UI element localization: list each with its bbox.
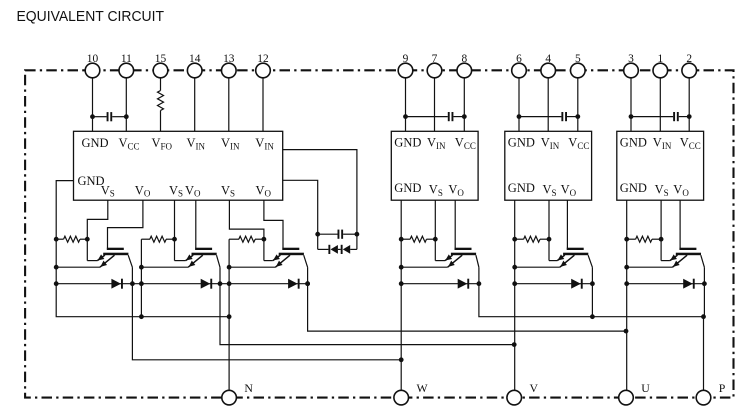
transistor Q3 body bar	[279, 253, 304, 256]
svg-text:V: V	[530, 381, 539, 395]
transistor Q4 body bar	[676, 253, 701, 256]
junction V routing / V column	[512, 342, 517, 347]
junction U4 column / emitter wire	[624, 265, 629, 270]
wire pin 7 to box U2	[434, 78, 436, 132]
pin 3	[624, 63, 639, 78]
svg-text:2: 2	[686, 53, 692, 65]
transistor Q2 collector	[476, 255, 479, 267]
wire pin 14 to box	[194, 78, 196, 132]
transistor Q3 emitter 1	[557, 255, 565, 261]
P-side control box U3	[505, 131, 592, 200]
wire VS1 to emitter of Q1	[87, 200, 108, 260]
wire pin 5 to box U3	[577, 78, 579, 132]
junction R / VS of U4	[659, 237, 664, 242]
wire VO1 to gate of Q1	[108, 200, 143, 248]
svg-text:P: P	[719, 381, 726, 395]
P column to P pin	[703, 317, 705, 391]
junction U2 column / diode row	[399, 281, 404, 286]
transistor Q3 emitter 1	[273, 255, 281, 261]
resistor R3	[229, 238, 239, 240]
pin 12	[256, 63, 271, 78]
junction VS1 / R1	[85, 237, 90, 242]
diode row wire left	[56, 283, 307, 285]
wire pin 3 to box U4	[630, 78, 632, 132]
freewheel diode D2	[201, 279, 211, 289]
wire collector Q1 to W output	[132, 267, 401, 360]
junction U3 column / resistor	[512, 237, 517, 242]
transistor Q1 collector	[128, 255, 132, 267]
pin 11	[119, 63, 134, 78]
transistor Q2 emitter 2	[188, 255, 203, 267]
svg-text:GND: GND	[620, 136, 647, 150]
resistor R2	[141, 238, 150, 240]
resistor on pin 15 line	[158, 91, 164, 111]
diode row of U4	[627, 283, 705, 285]
freewheel diode of U4	[683, 279, 693, 289]
svg-text:6: 6	[516, 53, 522, 65]
junction diode row / end	[305, 281, 310, 286]
resistor R of U3	[515, 238, 524, 240]
U2 output column (GND)	[400, 200, 402, 390]
transistor Q2 collector	[217, 255, 221, 267]
svg-text:4: 4	[545, 53, 551, 65]
junction U2 column / resistor	[399, 237, 404, 242]
wire VO of U2 to gate	[454, 200, 456, 248]
svg-text:14: 14	[189, 53, 201, 65]
transistor Q3 collector	[588, 255, 592, 267]
wire emitter 2 of Q2 to rail	[141, 266, 188, 268]
svg-text:GND: GND	[508, 136, 535, 150]
svg-text:7: 7	[432, 53, 438, 65]
wire collector Q3 to U output	[308, 267, 626, 331]
svg-text:N: N	[244, 381, 253, 395]
wire pin 11 to box	[125, 78, 127, 132]
junction U routing / U column	[624, 329, 629, 334]
transistor Q2 body bar	[192, 253, 217, 256]
wire pin 10 to box	[92, 78, 94, 132]
wire VS to Q2 emitter 1	[175, 260, 186, 262]
wire pin 13 to box	[228, 78, 230, 132]
diode pair D7	[318, 248, 329, 250]
pin 13	[222, 63, 237, 78]
wire emitter 2 of Q2 to rail	[401, 266, 448, 268]
freewheel diode of U3	[571, 279, 581, 289]
wire VS of U2 to emitter	[434, 200, 436, 260]
wire VS to Q4 emitter 1	[661, 260, 670, 262]
wire VS to Q1 emitter 1	[87, 260, 97, 262]
junction collector Q2 / diode row	[218, 281, 223, 286]
junction GND rail / emitter wire	[54, 265, 59, 270]
svg-text:GND: GND	[620, 181, 647, 195]
junction GND rail / diode row	[54, 281, 59, 286]
wire VS3 to emitter of Q3	[229, 200, 264, 260]
junction rail1 / emitter wire Q2	[139, 265, 144, 270]
svg-text:8: 8	[461, 53, 467, 65]
capacitor C3 between GND and VCC of U2	[406, 116, 448, 118]
transistor Q3 body bar	[563, 253, 588, 256]
pin 6	[512, 63, 527, 78]
wire GND rail from U1 to N bus	[56, 181, 229, 317]
wire pin 15 to box	[160, 78, 162, 91]
wire VS to Q3 emitter 1	[264, 260, 273, 262]
pin 2	[682, 63, 697, 78]
junction diode row / collector of U4	[702, 281, 707, 286]
pin 14	[187, 63, 202, 78]
svg-text:1: 1	[657, 53, 663, 65]
transistor Q1 gate bar	[107, 248, 124, 250]
wire collector Q2 to V output	[220, 267, 514, 344]
resistor R of U4	[627, 238, 636, 240]
transistor Q3 emitter 2	[275, 255, 290, 267]
transistor Q3 collector	[304, 255, 308, 267]
junction N column / diode row	[227, 281, 232, 286]
svg-text:GND: GND	[394, 136, 421, 150]
junction N bus / N column	[227, 314, 232, 319]
wire emitter 2 of Q3 to rail	[515, 266, 560, 268]
P-side control box U4	[617, 131, 704, 200]
transistor Q4 gate bar	[679, 248, 696, 250]
pin 7	[427, 63, 442, 78]
junction R3 / VS3	[262, 237, 267, 242]
pin 5	[571, 63, 586, 78]
junction diode row / collector of U2	[477, 281, 482, 286]
junction collector Q3 / diode row	[305, 281, 310, 286]
wire emitter 2 of Q4 to rail	[627, 266, 673, 268]
pin 1	[653, 63, 668, 78]
junction diode row / collector of U3	[590, 281, 595, 286]
wire VS to Q2 emitter 1	[435, 260, 445, 262]
svg-text:5: 5	[575, 53, 581, 65]
junction P bus / V collector	[590, 314, 595, 319]
junction R2 / VS2	[172, 237, 177, 242]
wire pin 1 to box U4	[659, 78, 661, 132]
junction R / VS of U3	[547, 237, 552, 242]
svg-text:12: 12	[257, 53, 269, 65]
junction U3 column / diode row	[512, 281, 517, 286]
P bus	[479, 267, 704, 316]
wire collector V cell to P bus	[591, 267, 593, 316]
wire VS of U3 to emitter	[548, 200, 550, 260]
wire VO of U4 to gate	[679, 200, 681, 248]
resistor R1	[56, 238, 63, 240]
junction U4 column / diode row	[624, 281, 629, 286]
transistor Q1 emitter 2	[100, 255, 115, 267]
pin 9	[398, 63, 413, 78]
pin W	[394, 390, 409, 405]
transistor Q2 emitter 2	[448, 255, 463, 267]
wire pin 4 to box U3	[547, 78, 549, 132]
wire VO of U3 to gate	[566, 200, 568, 248]
svg-text:3: 3	[628, 53, 634, 65]
junction rail1 / diode row	[139, 281, 144, 286]
transistor Q2 gate bar	[195, 248, 212, 250]
junction U4 column / resistor	[624, 237, 629, 242]
wire pin 9 to box U2	[405, 78, 407, 132]
capacitor C5 between GND and VCC of U4	[631, 116, 673, 118]
svg-text:GND: GND	[508, 181, 535, 195]
junction N bus / rail 1	[139, 314, 144, 319]
wire U1 right tap 2	[283, 180, 318, 249]
transistor Q2 emitter 1	[445, 255, 453, 261]
svg-text:U: U	[641, 381, 650, 395]
transistor Q4 emitter 1	[670, 255, 678, 261]
P-side control box U2	[391, 131, 478, 200]
capacitor C4 between GND and VCC of U3	[519, 116, 561, 118]
transistor Q3 emitter 2	[560, 255, 575, 267]
resistor R of U2	[401, 238, 410, 240]
transistor Q3 gate bar	[282, 248, 299, 250]
svg-text:9: 9	[403, 53, 409, 65]
transistor Q4 emitter 2	[673, 255, 688, 267]
wire U1 right tap 1	[283, 150, 357, 250]
wire VO2 to gate of Q2	[195, 200, 197, 248]
junction R / VS of U2	[433, 237, 438, 242]
capacitor C1 between pin 10 and pin 11 lines	[93, 116, 107, 118]
transistor Q4 collector	[701, 255, 705, 267]
wire emitter 2 of Q1 to rail	[56, 266, 100, 268]
pin 10	[85, 63, 100, 78]
svg-text:GND: GND	[82, 136, 109, 150]
transistor Q1 body bar	[103, 253, 128, 256]
emitter rail 1	[140, 239, 142, 317]
transistor Q2 body bar	[451, 253, 476, 256]
U4 output column (GND)	[626, 200, 628, 390]
wire VO3 to gate of Q3	[264, 200, 283, 248]
dash-dot module border	[25, 70, 733, 397]
freewheel diode D3	[288, 279, 298, 289]
transistor Q2 emitter 1	[186, 255, 194, 261]
transistor Q1 emitter 1	[97, 255, 105, 261]
pin N	[222, 390, 237, 405]
svg-text:EQUIVALENT CIRCUIT: EQUIVALENT CIRCUIT	[17, 9, 165, 25]
transistor Q2 gate bar	[455, 248, 472, 250]
diode row of U2	[401, 283, 479, 285]
wire pin 2 to box U4	[688, 78, 690, 132]
N column	[228, 239, 230, 390]
wire VS to Q3 emitter 1	[549, 260, 557, 262]
junction collector Q1 / diode row	[130, 281, 135, 286]
junction W routing / W column	[399, 357, 404, 362]
svg-text:GND: GND	[394, 181, 421, 195]
freewheel diode of U2	[458, 279, 468, 289]
pin 15	[153, 63, 168, 78]
svg-text:10: 10	[87, 53, 99, 65]
svg-text:11: 11	[121, 53, 132, 65]
wire VS of U4 to emitter	[660, 200, 662, 260]
capacitor C2	[318, 233, 338, 235]
junction GND rail / R1	[54, 237, 59, 242]
wire collector U cell to P bus / P column	[703, 267, 705, 316]
junction N column / emitter wire Q3	[227, 265, 232, 270]
diode row of U3	[515, 283, 593, 285]
junction U3 column / emitter wire	[512, 265, 517, 270]
svg-text:W: W	[417, 381, 429, 395]
svg-text:13: 13	[223, 53, 235, 65]
wire VS2 to emitter of Q2	[174, 200, 176, 260]
wire emitter 2 of Q3 to rail	[229, 266, 275, 268]
U3 output column (GND)	[514, 200, 516, 390]
transistor Q3 gate bar	[567, 248, 584, 250]
junction U2 column / emitter wire	[399, 265, 404, 270]
wire pin 8 to box U2	[463, 78, 465, 132]
pin P	[696, 390, 711, 405]
freewheel diode D1	[111, 279, 121, 289]
wire pin 12 to box	[262, 78, 264, 132]
wire pin 6 to box U3	[518, 78, 520, 132]
svg-text:15: 15	[155, 53, 167, 65]
junction P bus / P column	[701, 314, 706, 319]
pin V	[507, 390, 522, 405]
pin U	[619, 390, 634, 405]
N-side control box U1	[74, 131, 283, 200]
pin 8	[457, 63, 472, 78]
pin 4	[541, 63, 556, 78]
